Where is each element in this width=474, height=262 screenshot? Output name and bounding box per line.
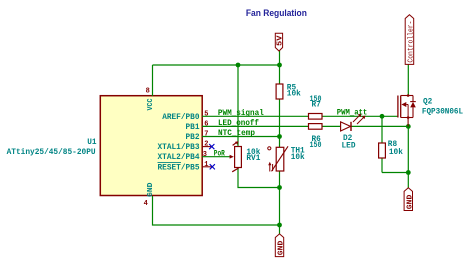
junction node NTC [277,134,282,139]
wire GND rail [153,196,280,234]
pin 4 GND [144,182,155,208]
wire top rail [153,64,280,66]
svg-text:7: 7 [204,131,208,139]
svg-text:PB2: PB2 [186,133,200,142]
resistor R7 [309,95,323,119]
pin 5 AREF/PB0 [162,110,208,122]
svg-text:XTAL2/PB4: XTAL2/PB4 [158,153,200,162]
wire R8 branch [382,116,408,172]
svg-text:2: 2 [204,141,208,149]
svg-text:RESET/PB5: RESET/PB5 [158,163,200,172]
svg-text:VCC: VCC [147,98,155,110]
junction node 5V-RV1 [236,63,241,68]
svg-text:10k: 10k [389,148,403,157]
wire RV1 branch [237,65,239,147]
pin 7 PB2 [186,131,209,143]
wire TH1 bottom [279,171,281,225]
wire RV1 bottom [238,168,280,188]
svg-text:5: 5 [204,110,208,118]
svg-text:PWM_att: PWM_att [337,109,368,118]
svg-text:Q2: Q2 [423,98,432,107]
wire PWM_signal [202,115,398,117]
label Controller- [405,15,415,65]
svg-text:PB1: PB1 [186,123,200,132]
svg-text:PWM_signal: PWM_signal [218,109,264,118]
svg-text:AREF/PB0: AREF/PB0 [162,113,199,122]
wire LED_onoff [202,125,408,127]
svg-text:GND: GND [406,194,414,209]
svg-text:5V: 5V [277,35,285,46]
resistor R6 [309,124,323,150]
wire source down [407,126,409,188]
svg-text:R7: R7 [312,101,321,110]
junction node 5V-R5 [277,63,282,68]
transistor Q2 [398,94,463,126]
junction node R8-source [406,170,411,175]
svg-text:LED_onoff: LED_onoff [218,119,259,128]
wire NTC_temp [202,136,280,138]
pin 6 PB1 [186,120,209,131]
net label PWM_signal [218,109,264,118]
net label NTC_temp [218,129,255,138]
svg-text:3: 3 [203,151,207,159]
svg-text:10k: 10k [291,153,305,162]
wire drain up [407,65,409,95]
net label PWM_att [337,109,368,118]
svg-text:6: 6 [204,120,208,128]
svg-text:Controller-: Controller- [408,21,416,63]
junction node gnd rail [277,223,282,228]
pin 2 XTAL1/PB3 no-connect [158,141,215,152]
wire R5 top [279,65,281,84]
svg-text:NTC_temp: NTC_temp [218,129,255,138]
ground GND center [275,234,285,257]
junction node RV1-TH1 gnd [277,185,282,190]
svg-text:FQP30N06L: FQP30N06L [422,108,463,117]
wire R5 bottom to NTC node [279,99,281,147]
ground GND right [404,188,414,211]
potentiometer RV1 [230,141,261,172]
svg-text:XTAL1/PB3: XTAL1/PB3 [158,143,200,152]
junction node PWM_att [380,114,385,119]
svg-text:ATtiny25/45/85-20PU: ATtiny25/45/85-20PU [7,148,96,157]
power 5V [275,33,284,51]
svg-text:U1: U1 [87,138,96,147]
thermistor TH1 [268,146,305,171]
net label LED_onoff [218,119,259,128]
svg-text:GND: GND [278,240,286,255]
junction node source-LED [406,124,411,129]
IC U1 body [100,96,202,196]
net label PoR [214,150,225,159]
svg-text:1: 1 [204,161,208,169]
svg-text:8: 8 [146,88,150,96]
svg-text:PoR: PoR [214,150,225,159]
pin 3 XTAL2/PB4 [158,151,208,162]
svg-text:10k: 10k [287,90,301,99]
svg-text:Fan Regulation: Fan Regulation [246,8,307,19]
wire pin3 PoR [202,156,230,158]
IC U1 reference [7,138,97,157]
svg-text:150: 150 [310,141,322,150]
svg-text:GND: GND [147,182,155,197]
resistor R8 [379,140,403,158]
pin 8 VCC [146,88,155,111]
resistor R5 [276,83,301,99]
wire VCC drop [152,65,154,96]
svg-text:4: 4 [144,200,148,208]
svg-text:RV1: RV1 [246,154,260,163]
svg-text:LED: LED [342,141,356,150]
LED D2 [341,114,366,151]
wire 5V drop [279,51,281,66]
pin 1 RESET/PB5 no-connect [158,161,215,172]
